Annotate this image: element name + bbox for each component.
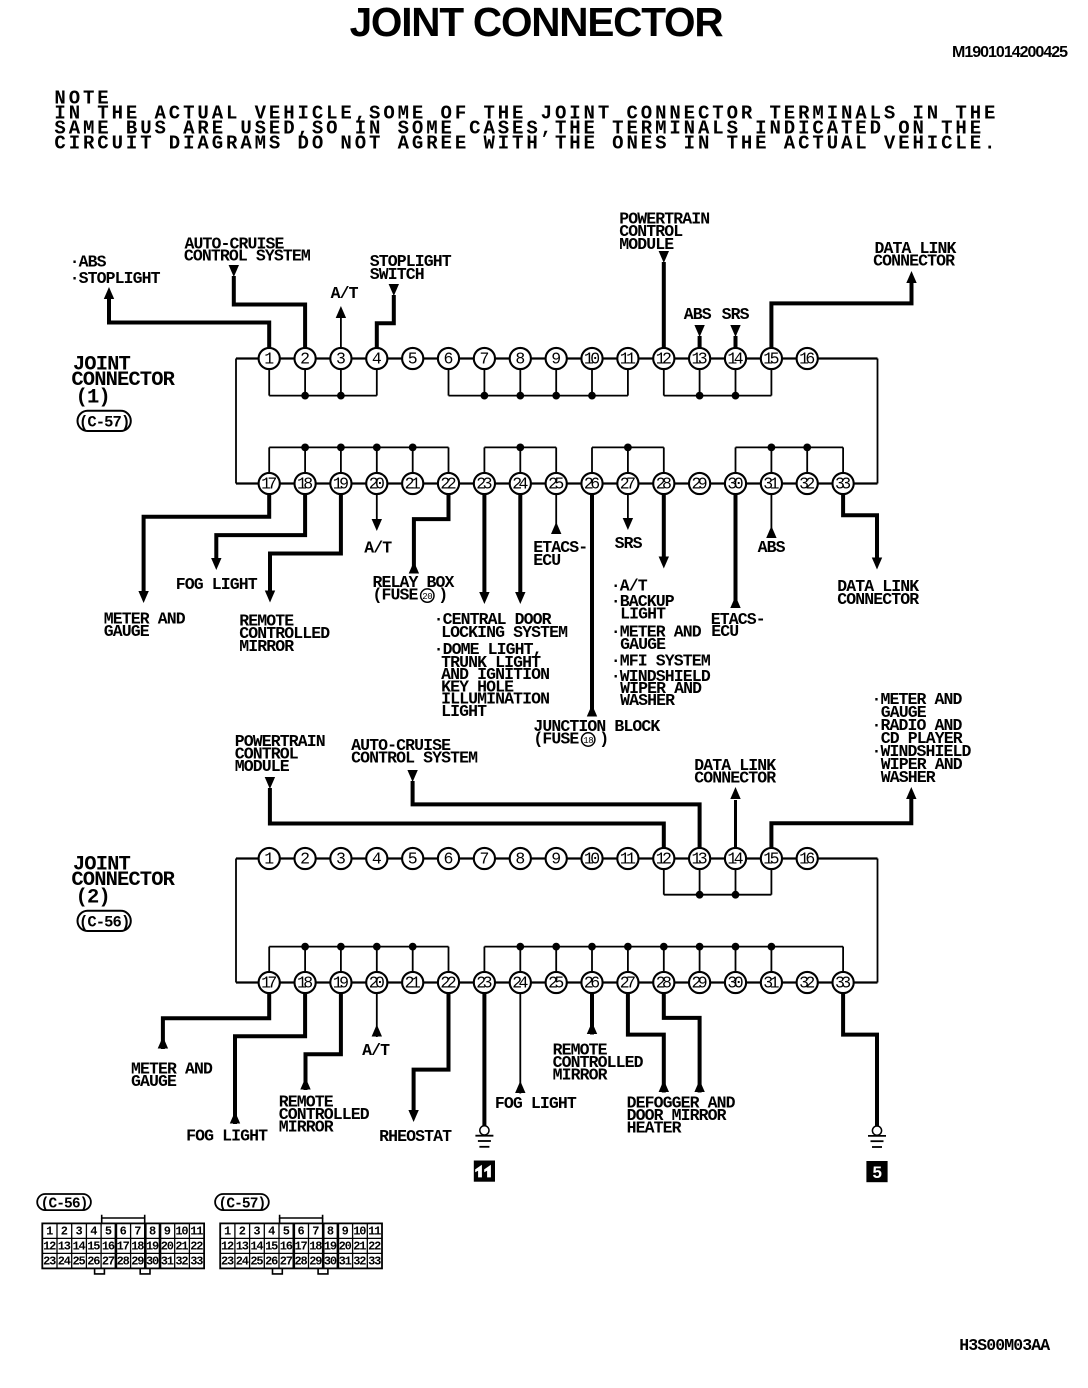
svg-text:1: 1 <box>46 1224 53 1238</box>
svg-text:FOG LIGHT: FOG LIGHT <box>495 1094 577 1113</box>
svg-text:LIGHT: LIGHT <box>441 702 487 721</box>
svg-text:18: 18 <box>131 1239 144 1253</box>
svg-text:1: 1 <box>224 1224 231 1238</box>
svg-text:17: 17 <box>261 973 277 992</box>
svg-text:7: 7 <box>134 1224 141 1238</box>
svg-text:M1901014200425: M1901014200425 <box>952 44 1068 61</box>
svg-text:LIGHT: LIGHT <box>620 605 666 624</box>
svg-text:21: 21 <box>175 1239 188 1253</box>
svg-text:31: 31 <box>763 474 779 493</box>
svg-text:21: 21 <box>353 1239 366 1253</box>
svg-text:25: 25 <box>548 474 564 493</box>
svg-text:16: 16 <box>799 849 815 868</box>
svg-text:JOINT CONNECTOR: JOINT CONNECTOR <box>350 0 724 45</box>
svg-text:15: 15 <box>763 349 779 368</box>
svg-text:(1): (1) <box>76 387 110 410</box>
svg-text:19: 19 <box>333 474 349 493</box>
svg-text:9: 9 <box>551 349 561 368</box>
svg-text:CONTROL SYSTEM: CONTROL SYSTEM <box>351 748 478 767</box>
svg-text:18: 18 <box>297 973 313 992</box>
svg-text:15: 15 <box>265 1239 278 1253</box>
svg-text:29: 29 <box>692 973 708 992</box>
svg-text:33: 33 <box>190 1254 203 1268</box>
svg-text:(C-56): (C-56) <box>41 1196 88 1212</box>
svg-text:26: 26 <box>584 474 600 493</box>
svg-text:12: 12 <box>656 849 672 868</box>
svg-text:MIRROR: MIRROR <box>553 1066 608 1085</box>
svg-text:ABS: ABS <box>758 538 786 557</box>
svg-text:22: 22 <box>440 474 456 493</box>
svg-text:30: 30 <box>324 1254 337 1268</box>
svg-text:FOG LIGHT: FOG LIGHT <box>186 1126 268 1145</box>
svg-text:23: 23 <box>476 474 492 493</box>
svg-text:A/T: A/T <box>364 538 392 557</box>
svg-text:30: 30 <box>727 474 743 493</box>
svg-text:13: 13 <box>692 349 708 368</box>
svg-text:2: 2 <box>239 1224 246 1238</box>
svg-text:MODULE: MODULE <box>619 235 674 254</box>
svg-text:4: 4 <box>268 1224 275 1238</box>
svg-text:12: 12 <box>221 1239 234 1253</box>
svg-text:6: 6 <box>444 349 454 368</box>
svg-text:5: 5 <box>873 1163 882 1182</box>
svg-text:7: 7 <box>312 1224 319 1238</box>
svg-text:15: 15 <box>87 1239 100 1253</box>
svg-text:17: 17 <box>295 1239 308 1253</box>
svg-text:·STOPLIGHT: ·STOPLIGHT <box>70 269 161 288</box>
svg-text:12: 12 <box>43 1239 56 1253</box>
svg-text:11: 11 <box>620 349 636 368</box>
svg-text:18: 18 <box>297 474 313 493</box>
svg-text:32: 32 <box>799 474 815 493</box>
svg-text:29: 29 <box>692 474 708 493</box>
svg-text:25: 25 <box>73 1254 86 1268</box>
svg-text:33: 33 <box>835 474 851 493</box>
svg-text:16: 16 <box>102 1239 115 1253</box>
svg-text:33: 33 <box>835 973 851 992</box>
svg-text:4: 4 <box>90 1224 97 1238</box>
svg-text:H3S00M03AA: H3S00M03AA <box>959 1336 1050 1355</box>
svg-text:16: 16 <box>280 1239 293 1253</box>
svg-text:18: 18 <box>583 736 593 746</box>
svg-text:32: 32 <box>353 1254 366 1268</box>
svg-text:20: 20 <box>369 474 385 493</box>
svg-text:HEATER: HEATER <box>627 1119 682 1138</box>
svg-text:4: 4 <box>372 849 382 868</box>
svg-text:10: 10 <box>584 349 600 368</box>
svg-text:20: 20 <box>161 1239 174 1253</box>
svg-text:2: 2 <box>300 849 310 868</box>
svg-text:17: 17 <box>261 474 277 493</box>
svg-text:(2): (2) <box>76 887 110 910</box>
svg-text:8: 8 <box>515 349 525 368</box>
svg-text:24: 24 <box>58 1254 71 1268</box>
svg-text:22: 22 <box>440 973 456 992</box>
svg-text:A/T: A/T <box>331 284 359 303</box>
svg-text:13: 13 <box>58 1239 71 1253</box>
svg-text:21: 21 <box>405 474 421 493</box>
svg-text:1: 1 <box>264 349 274 368</box>
svg-text:26: 26 <box>584 973 600 992</box>
svg-text:SRS: SRS <box>615 534 643 553</box>
svg-text:10: 10 <box>353 1224 366 1238</box>
svg-text:3: 3 <box>75 1224 82 1238</box>
svg-text:ABS: ABS <box>684 305 712 324</box>
svg-text:8: 8 <box>149 1224 156 1238</box>
svg-text:28: 28 <box>117 1254 130 1268</box>
svg-text:MODULE: MODULE <box>235 757 290 776</box>
svg-text:27: 27 <box>102 1254 115 1268</box>
svg-text:31: 31 <box>339 1254 352 1268</box>
svg-text:22: 22 <box>368 1239 381 1253</box>
svg-text:26: 26 <box>87 1254 100 1268</box>
svg-text:(C-57): (C-57) <box>79 413 129 431</box>
svg-text:19: 19 <box>333 973 349 992</box>
svg-text:MIRROR: MIRROR <box>239 637 294 656</box>
svg-text:20: 20 <box>339 1239 352 1253</box>
svg-text:18: 18 <box>309 1239 322 1253</box>
svg-text:7: 7 <box>479 349 489 368</box>
svg-text:25: 25 <box>250 1254 263 1268</box>
svg-text:6: 6 <box>120 1224 127 1238</box>
svg-text:19: 19 <box>146 1239 159 1253</box>
svg-text:30: 30 <box>146 1254 159 1268</box>
svg-text:(C-56): (C-56) <box>79 913 129 931</box>
svg-text:25: 25 <box>548 973 564 992</box>
svg-text:3: 3 <box>253 1224 260 1238</box>
svg-text:8: 8 <box>327 1224 334 1238</box>
svg-text:11: 11 <box>368 1224 381 1238</box>
svg-text:(FUSE: (FUSE <box>373 586 419 605</box>
svg-text:27: 27 <box>620 474 636 493</box>
svg-text:6: 6 <box>297 1224 304 1238</box>
svg-text:8: 8 <box>515 849 525 868</box>
svg-text:MIRROR: MIRROR <box>279 1118 334 1137</box>
svg-text:29: 29 <box>309 1254 322 1268</box>
svg-text:GAUGE: GAUGE <box>104 622 150 641</box>
svg-text:3: 3 <box>336 349 346 368</box>
svg-text:22: 22 <box>190 1239 203 1253</box>
svg-text:29: 29 <box>131 1254 144 1268</box>
svg-text:28: 28 <box>656 474 672 493</box>
svg-text:30: 30 <box>727 973 743 992</box>
svg-text:SWITCH: SWITCH <box>370 265 424 284</box>
svg-text:32: 32 <box>799 973 815 992</box>
svg-text:(FUSE: (FUSE <box>533 729 579 748</box>
svg-text:5: 5 <box>105 1224 112 1238</box>
svg-text:CIRCUIT DIAGRAMS DO NOT AGREE: CIRCUIT DIAGRAMS DO NOT AGREE WITH THE O… <box>54 133 998 155</box>
svg-text:20: 20 <box>422 592 432 602</box>
svg-text:): ) <box>599 729 608 748</box>
svg-text:9: 9 <box>164 1224 171 1238</box>
svg-text:17: 17 <box>117 1239 130 1253</box>
svg-text:5: 5 <box>408 349 418 368</box>
svg-text:13: 13 <box>692 849 708 868</box>
svg-text:11: 11 <box>620 849 636 868</box>
svg-text:32: 32 <box>175 1254 188 1268</box>
svg-text:14: 14 <box>727 349 743 368</box>
svg-text:7: 7 <box>479 849 489 868</box>
svg-text:CONTROL SYSTEM: CONTROL SYSTEM <box>184 246 311 265</box>
svg-text:WASHER: WASHER <box>881 768 936 787</box>
svg-text:14: 14 <box>73 1239 86 1253</box>
svg-text:5: 5 <box>283 1224 290 1238</box>
svg-text:23: 23 <box>476 973 492 992</box>
svg-text:28: 28 <box>295 1254 308 1268</box>
svg-text:27: 27 <box>620 973 636 992</box>
svg-text:9: 9 <box>342 1224 349 1238</box>
svg-text:A/T: A/T <box>362 1041 390 1060</box>
svg-text:20: 20 <box>369 973 385 992</box>
svg-text:28: 28 <box>656 973 672 992</box>
svg-text:1: 1 <box>264 849 274 868</box>
svg-text:CONNECTOR: CONNECTOR <box>873 251 955 270</box>
svg-text:24: 24 <box>236 1254 249 1268</box>
svg-text:CONNECTOR: CONNECTOR <box>837 590 919 609</box>
svg-text:11: 11 <box>190 1224 203 1238</box>
svg-text:16: 16 <box>799 349 815 368</box>
svg-text:RHEOSTAT: RHEOSTAT <box>379 1127 452 1146</box>
svg-text:15: 15 <box>763 849 779 868</box>
svg-text:21: 21 <box>405 973 421 992</box>
svg-text:): ) <box>438 586 447 605</box>
svg-text:24: 24 <box>512 973 528 992</box>
svg-text:CONNECTOR: CONNECTOR <box>694 769 776 788</box>
svg-text:ECU: ECU <box>533 551 560 570</box>
svg-text:GAUGE: GAUGE <box>131 1072 177 1091</box>
svg-text:WASHER: WASHER <box>620 691 675 710</box>
svg-text:5: 5 <box>408 849 418 868</box>
svg-text:14: 14 <box>250 1239 263 1253</box>
svg-text:9: 9 <box>551 849 561 868</box>
svg-text:24: 24 <box>512 474 528 493</box>
svg-text:23: 23 <box>221 1254 234 1268</box>
svg-text:26: 26 <box>265 1254 278 1268</box>
svg-text:12: 12 <box>656 349 672 368</box>
svg-text:6: 6 <box>444 849 454 868</box>
svg-text:2: 2 <box>300 349 310 368</box>
svg-text:31: 31 <box>161 1254 174 1268</box>
svg-text:14: 14 <box>727 849 743 868</box>
svg-text:ECU: ECU <box>711 622 738 641</box>
svg-text:27: 27 <box>280 1254 293 1268</box>
svg-text:4: 4 <box>372 349 382 368</box>
svg-text:SRS: SRS <box>722 305 750 324</box>
svg-text:FOG LIGHT: FOG LIGHT <box>176 575 258 594</box>
svg-text:23: 23 <box>43 1254 56 1268</box>
svg-text:10: 10 <box>584 849 600 868</box>
svg-text:2: 2 <box>61 1224 68 1238</box>
svg-text:33: 33 <box>368 1254 381 1268</box>
svg-text:19: 19 <box>324 1239 337 1253</box>
svg-text:31: 31 <box>763 973 779 992</box>
svg-text:3: 3 <box>336 849 346 868</box>
svg-text:10: 10 <box>175 1224 188 1238</box>
svg-text:(C-57): (C-57) <box>219 1196 266 1212</box>
svg-text:13: 13 <box>236 1239 249 1253</box>
